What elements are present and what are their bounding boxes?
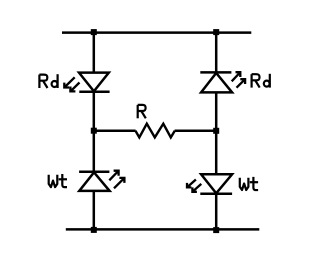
LED D3 white left (anode down, cathode up) xyxy=(79,172,110,191)
wire right branch top segment xyxy=(215,33,218,73)
wire left branch bottom segment xyxy=(93,191,96,230)
wire mid right xyxy=(175,130,217,133)
wire right branch D2-to-mid segment xyxy=(215,92,218,130)
label Rd left xyxy=(39,74,57,88)
LED D4 arrows xyxy=(187,180,201,192)
resistor R xyxy=(135,124,174,138)
wire top rail xyxy=(62,31,251,34)
label Wt left xyxy=(49,174,67,187)
junction node top-right xyxy=(213,29,219,35)
wire mid left xyxy=(94,129,136,132)
label R xyxy=(138,105,146,118)
wire right branch bottom segment xyxy=(215,194,218,230)
label Rd right xyxy=(252,74,270,88)
wire right branch mid-to-D4 segment xyxy=(215,131,218,175)
label Wt right xyxy=(240,177,258,190)
LED D2 red right (anode down, cathode up) xyxy=(200,72,232,92)
junction node bottom-left xyxy=(91,227,97,233)
LED D1 red left (anode up, cathode down) xyxy=(79,73,110,92)
LED D2 arrows xyxy=(232,72,245,88)
LED D3 arrows xyxy=(109,171,124,189)
wire bottom rail xyxy=(66,228,259,231)
junction node top-left xyxy=(91,29,97,35)
LED D4 white right (anode up, cathode down) xyxy=(200,174,232,194)
wire left branch top segment xyxy=(93,33,96,73)
LED D1 arrows xyxy=(64,77,79,91)
wire left branch D1-to-mid segment xyxy=(93,92,96,131)
wire left branch mid-to-D3 segment xyxy=(93,131,96,172)
junction node mid-right xyxy=(213,128,219,134)
junction node mid-left xyxy=(91,128,97,134)
junction node bottom-right xyxy=(213,227,219,233)
